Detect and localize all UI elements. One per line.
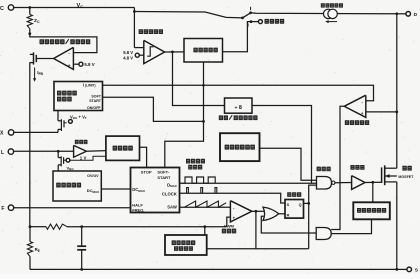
wire block top input	[204, 227, 206, 235]
wire gate line	[365, 181, 382, 183]
wire V_C rail from C pin	[14, 7, 135, 9]
label I_FB	[37, 70, 43, 76]
transistor Q4 power MOSFET	[382, 165, 397, 185]
wire 5.8V ref stub	[73, 63, 79, 65]
label 轻载时降低	[172, 240, 196, 245]
resistor Zc	[27, 15, 32, 29]
terminal S	[407, 267, 419, 274]
op-amp U1 error amplifier	[54, 47, 74, 69]
terminal F	[1, 205, 13, 212]
svg-text:S: S	[287, 203, 290, 207]
wire SAW line	[180, 206, 231, 208]
svg-text:STOP: STOP	[141, 170, 152, 175]
block U7 线路检测电路	[53, 171, 101, 201]
svg-text:VBG + VT: VBG + VT	[70, 114, 87, 120]
node cap junction	[80, 225, 83, 228]
wire RC node line	[30, 226, 46, 228]
label 调节器	[57, 97, 72, 102]
wire divide8 output	[252, 106, 312, 184]
svg-text:R: R	[287, 213, 290, 217]
label ON/OFF	[87, 106, 101, 110]
label 并联调整器/误差放大器	[40, 39, 91, 44]
label 功率 MOSFET	[398, 166, 414, 179]
svg-text:RE: RE	[35, 247, 40, 253]
label HALF FREQ.	[132, 202, 144, 212]
label R	[287, 213, 290, 217]
svg-text:DCMAX: DCMAX	[132, 187, 145, 193]
wire latch output	[304, 202, 309, 204]
wire latch Q vertical	[309, 185, 317, 249]
svg-text:D: D	[414, 12, 418, 18]
label ÷8	[234, 105, 241, 111]
node switch left	[241, 17, 244, 20]
wire V_C rail mid segment	[134, 12, 242, 18]
label 前沿消隐电路	[357, 208, 386, 213]
label V_BG+V_T	[70, 114, 87, 120]
label SOFT START	[89, 95, 102, 103]
label 软启动电路	[193, 48, 217, 53]
gate circle Q2	[69, 120, 73, 124]
wire F pin to oscillator	[14, 207, 131, 209]
wire UV comp output	[165, 51, 184, 53]
transistor Q3 line sense	[58, 151, 66, 171]
node latch output	[307, 202, 310, 205]
block U13 滞后过热保护	[220, 133, 260, 161]
svg-text:5.8 V: 5.8 V	[84, 62, 94, 67]
wire blanking to AND	[331, 219, 371, 233]
wire RE bottom	[29, 257, 31, 270]
wire internal supply stub	[251, 21, 258, 23]
label 驱动器	[350, 165, 364, 170]
label SOFT-START	[157, 170, 171, 180]
buffer U5 1V	[74, 145, 87, 157]
label SAW	[167, 205, 177, 210]
svg-text:1 V: 1 V	[80, 155, 87, 160]
wire CLOCK line	[180, 193, 286, 203]
block U12 divide-by-8	[225, 98, 253, 113]
wire gate from op-amp	[36, 58, 53, 60]
comparator U2 UV	[144, 40, 165, 63]
svg-text:DMAX: DMAX	[167, 182, 177, 188]
wire soft-start block output	[223, 22, 252, 52]
label D_MAX	[167, 182, 177, 188]
wire thermal to NAND	[260, 148, 317, 180]
label DC_MAX out	[87, 188, 99, 194]
label 内部电源	[265, 19, 285, 24]
node cap bottom	[80, 268, 83, 271]
svg-text:CLOCK: CLOCK	[162, 192, 177, 197]
waveform CLOCK pulses	[187, 188, 217, 194]
wire buffer output	[86, 150, 106, 153]
label 与非门	[317, 167, 331, 172]
block U3 软启动电路	[184, 39, 223, 63]
svg-text:4.8 V: 4.8 V	[123, 55, 133, 60]
node sense on drain	[395, 111, 398, 114]
wire PWM output	[252, 210, 264, 212]
wire UV ref stub	[139, 54, 143, 56]
node internal-supply tap	[250, 20, 253, 23]
resistor R_E	[27, 242, 32, 257]
arrow current direction	[325, 20, 337, 23]
svg-text:VC: VC	[77, 3, 84, 9]
label DC_MAX in	[132, 187, 145, 193]
label 滞后过热保护	[225, 145, 255, 150]
label 线路检测器	[56, 183, 81, 188]
node drain rail junction	[395, 12, 398, 15]
svg-text:C: C	[0, 6, 4, 12]
svg-text:Q: Q	[299, 203, 302, 207]
block U6 停止逻辑	[106, 136, 140, 160]
wire Zc bottom to node	[29, 29, 31, 34]
node switch right	[249, 11, 252, 14]
wire comparator output	[331, 106, 344, 229]
label 振荡器	[188, 165, 202, 170]
label 跟随器	[75, 140, 88, 144]
resistor R1	[46, 224, 67, 229]
svg-text:MOSFET: MOSFET	[398, 175, 414, 179]
wire gate to blanking	[372, 182, 374, 202]
label 高压电流源	[321, 3, 343, 7]
wire control vertical	[29, 62, 31, 226]
label V_BG	[67, 165, 75, 171]
terminal 5.8V ref	[79, 62, 83, 66]
wire stop to oscillator	[140, 147, 147, 167]
comparator U14 current limit	[344, 95, 366, 117]
label 1 V	[80, 155, 87, 160]
label 停止逻辑	[113, 146, 133, 151]
terminal UV ref	[135, 53, 139, 57]
wire S stub	[397, 268, 407, 270]
waveform SAW teeth	[184, 201, 226, 207]
wire drain vertical	[396, 14, 398, 168]
wire I-limit line	[103, 85, 374, 101]
label 频率抖动	[186, 159, 205, 164]
block U19 轻载降频	[165, 235, 207, 255]
node C/Zc junction	[28, 6, 31, 9]
nand U15	[317, 177, 335, 190]
label 欠压比较器	[139, 29, 163, 34]
current source CS1 高压电流源	[324, 9, 338, 18]
wire DCMAX line	[101, 188, 130, 190]
svg-text:FREQ.: FREQ.	[132, 207, 144, 212]
label Zc	[34, 18, 40, 24]
svg-text:START: START	[157, 175, 171, 180]
wire PWM output down	[255, 211, 257, 249]
svg-text:PWM: PWM	[224, 223, 234, 228]
wire DMAX line	[180, 182, 317, 184]
wire UV comp supply input	[134, 8, 143, 48]
svg-text:+: +	[361, 111, 364, 116]
block U17 前沿消隐电路	[353, 202, 390, 219]
wire sense input	[366, 111, 397, 113]
wire soft-start to oscillator	[165, 121, 204, 167]
wire Q3 gate to stop logic	[70, 156, 106, 160]
svg-text:÷ 8: ÷ 8	[234, 105, 241, 111]
node UV output junction	[171, 51, 174, 54]
wire UV to divide-by-8	[173, 52, 225, 106]
or-gate U10	[263, 207, 279, 220]
label Q	[299, 203, 302, 207]
transistor Q1 shunt	[30, 52, 37, 64]
svg-text:ON/OFF: ON/OFF	[87, 106, 101, 110]
wire block output	[207, 248, 309, 250]
wire source vertical	[396, 182, 398, 270]
wire V_C rail right segment to D	[251, 13, 397, 14]
label 锁存器	[287, 192, 301, 197]
node L junction	[57, 150, 60, 153]
wire X pin	[14, 131, 58, 133]
label V_C	[77, 3, 84, 9]
terminal X	[0, 130, 14, 137]
driver U16	[352, 176, 365, 190]
capacitor C1	[77, 227, 86, 270]
node soft-start junction	[202, 120, 205, 123]
switch S1 blade	[243, 13, 251, 18]
wire OR output	[278, 213, 285, 215]
wire L pin	[14, 150, 74, 152]
node rail step junction	[133, 10, 136, 13]
svg-text:I (LIMIT): I (LIMIT)	[83, 83, 96, 88]
node PWM output	[255, 210, 258, 213]
label PWM 比较器	[222, 223, 236, 233]
wire soft-start line	[103, 97, 204, 121]
arrow I_FB	[33, 68, 36, 82]
label 电流极限	[57, 91, 77, 96]
svg-text:+: +	[68, 63, 71, 68]
terminal D	[406, 12, 418, 19]
label I(LIMIT)	[83, 83, 96, 88]
label S	[287, 203, 290, 207]
wire D stub	[397, 13, 406, 15]
svg-text:F: F	[1, 206, 4, 212]
node RC junction	[203, 225, 206, 228]
terminal internal supply	[258, 20, 262, 24]
and-gate U18	[316, 228, 331, 240]
label 过流比较器	[345, 120, 369, 125]
wire RE top	[29, 227, 31, 242]
node I-limit crossing junction	[202, 84, 205, 87]
label OV/UV	[87, 174, 99, 178]
wire RC mid	[67, 226, 227, 228]
block U11 latch	[285, 200, 304, 219]
switch tick marks	[248, 7, 251, 27]
label STOP	[141, 170, 152, 175]
block U8 oscillator	[131, 168, 180, 213]
gate circle Q3	[66, 158, 70, 162]
label CLOCK	[162, 192, 177, 197]
label 关断/自动重启动	[219, 115, 258, 120]
label 5.8V 4.8V	[123, 50, 133, 60]
node source rail MOSFET	[395, 268, 398, 271]
label 5.8 V	[84, 62, 94, 67]
wire OR bottom input	[261, 216, 316, 233]
wire soft-start block bottom	[203, 62, 205, 121]
svg-text:DCMAX: DCMAX	[87, 188, 99, 194]
terminal L	[1, 149, 14, 156]
wire NAND output	[335, 182, 352, 184]
waveform DMAX square	[183, 177, 216, 183]
svg-text:OV/UV: OV/UV	[87, 174, 99, 178]
terminal C	[0, 5, 14, 12]
transistor Q2 current-limit	[58, 111, 67, 133]
label 开关频率	[174, 246, 193, 251]
node control RC	[29, 225, 32, 228]
wire error input	[227, 217, 231, 227]
label R_E	[35, 247, 40, 253]
wire error amp feedback loop	[30, 34, 97, 53]
block U4 电流极限调节器	[54, 82, 103, 111]
wire source rail	[30, 268, 397, 270]
svg-text:L: L	[1, 150, 4, 156]
node control node	[28, 32, 31, 35]
wire Zc top	[29, 8, 31, 15]
comparator U9 PWM	[230, 201, 252, 222]
node gate junction	[371, 181, 374, 184]
